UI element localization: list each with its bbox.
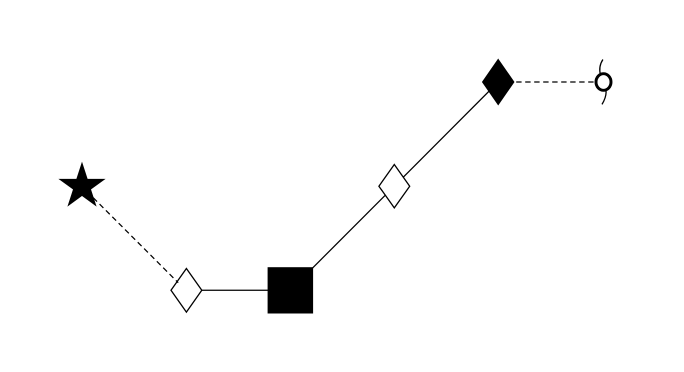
open diamond D2 xyxy=(379,165,410,208)
solid bond: filled square to open diamond D2 xyxy=(290,186,394,290)
dashed bond: star to open diamond D1 xyxy=(93,198,178,283)
squiggle (wavy reducing-end line) behind circle xyxy=(600,60,606,105)
filled diamond D3 xyxy=(483,60,514,105)
open diamond D1 xyxy=(171,269,202,313)
circle (reducing end) with thick ring xyxy=(596,74,611,91)
filled star monosaccharide xyxy=(60,163,104,205)
solid bond: open diamond D2 to filled diamond D3 xyxy=(394,82,498,186)
filled square monosaccharide xyxy=(268,268,313,313)
dashed bond: filled diamond D3 to circle xyxy=(498,81,603,83)
solid bond: open diamond D1 to filled square xyxy=(186,289,290,291)
